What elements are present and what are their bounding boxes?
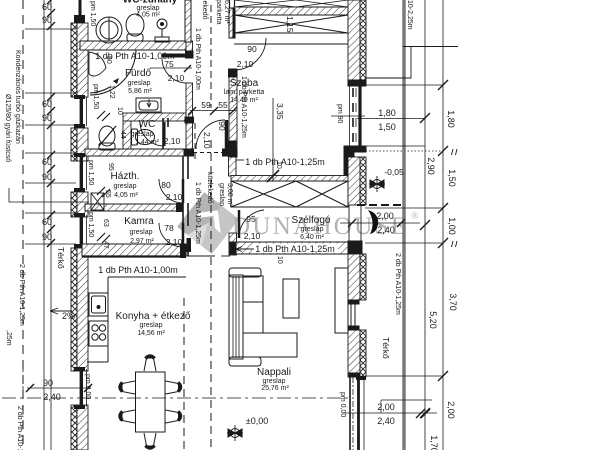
svg-text:2,00: 2,00 xyxy=(376,211,394,221)
svg-text:2,40: 2,40 xyxy=(43,392,61,402)
svg-text:pm 90: pm 90 xyxy=(336,104,343,124)
svg-text:greslap: greslap xyxy=(140,322,163,329)
left window extension lines xyxy=(25,29,76,244)
svg-text:25,76 m²: 25,76 m² xyxy=(261,385,289,392)
szoba right window extensions xyxy=(357,85,443,413)
svg-text:90: 90 xyxy=(42,172,52,182)
svg-text:greslap: greslap xyxy=(301,226,324,233)
svg-text:2%: 2% xyxy=(62,311,75,321)
svg-text:közlekedő: közlekedő xyxy=(201,0,208,20)
svg-text:1 db Pth A10-1,00m: 1 db Pth A10-1,00m xyxy=(98,265,178,275)
boiler leader line xyxy=(9,188,89,202)
kitchen counter edge xyxy=(87,277,186,362)
crossed-out toilet in niche xyxy=(99,126,116,150)
svg-text:6,27 m²: 6,27 m² xyxy=(223,0,230,24)
rotated dim labels right chains xyxy=(426,110,458,450)
svg-text:Házth.: Házth. xyxy=(111,171,140,182)
svg-text:50: 50 xyxy=(105,56,112,64)
Furdo/WC right wall xyxy=(184,41,194,156)
right chain B xyxy=(438,0,448,450)
svg-text:44: 44 xyxy=(119,131,126,139)
shower tray top room xyxy=(96,17,122,43)
svg-text:1 db Pth A10-1,25m: 1 db Pth A10-1,25m xyxy=(245,157,325,167)
svg-text:Térkő: Térkő xyxy=(381,337,391,359)
svg-text:10: 10 xyxy=(276,256,283,264)
washbasin furdo xyxy=(136,98,161,112)
svg-text:55: 55 xyxy=(218,100,228,110)
svg-text:60: 60 xyxy=(42,2,52,12)
svg-text:3,70: 3,70 xyxy=(448,293,458,311)
entry door leaf black xyxy=(368,210,378,234)
svg-text:1,70: 1,70 xyxy=(429,435,439,450)
svg-text:10: 10 xyxy=(116,107,123,115)
svg-text:Kamra: Kamra xyxy=(124,216,154,227)
szoba right window xyxy=(348,80,366,152)
boiler hazth xyxy=(91,193,104,210)
svg-text:pm 1,50: pm 1,50 xyxy=(87,160,94,185)
chairs left xyxy=(120,381,135,423)
toilet wc room xyxy=(132,129,155,145)
door kamra (78) xyxy=(159,223,183,247)
svg-text:2,90: 2,90 xyxy=(426,157,436,175)
szoba interior dim line xyxy=(267,98,279,182)
entry door threshold xyxy=(349,205,361,241)
coffee table xyxy=(283,279,299,318)
svg-text:6,40 m²: 6,40 m² xyxy=(300,234,324,241)
szelfogo right wall piece xyxy=(348,157,360,205)
svg-text:2,40: 2,40 xyxy=(377,416,395,426)
svg-text:greslap: greslap xyxy=(263,378,286,385)
nappali right big window glazing xyxy=(350,304,366,450)
svg-text:90: 90 xyxy=(247,44,257,54)
svg-text:95: 95 xyxy=(246,214,256,224)
svg-text:90: 90 xyxy=(42,113,52,123)
svg-text:2,10: 2,10 xyxy=(166,237,183,247)
sofa L-shape xyxy=(229,268,297,366)
svg-text:Nappali: Nappali xyxy=(257,367,291,378)
szoba left wall xyxy=(229,0,238,157)
svg-text:2,10: 2,10 xyxy=(237,59,254,69)
svg-text:60: 60 xyxy=(42,217,52,227)
svg-text:1,22: 1,22 xyxy=(108,85,115,99)
svg-text:közlekedő: közlekedő xyxy=(206,172,213,204)
terrace mid dim xyxy=(340,219,420,227)
terrace + bottom dim numbers xyxy=(246,108,404,426)
door szelfogo (95) xyxy=(239,210,264,238)
svg-text:5,20: 5,20 xyxy=(428,311,438,329)
terrace top step xyxy=(365,47,458,79)
svg-text:pm 0,00: pm 0,00 xyxy=(339,392,346,417)
left wall window caps xyxy=(74,15,85,409)
svg-text:pm 1,50: pm 1,50 xyxy=(87,212,94,237)
szoba bottom wall band xyxy=(226,116,365,175)
szoba right exterior wall upper xyxy=(348,0,360,80)
svg-text:2,40: 2,40 xyxy=(377,225,395,235)
svg-text:1,80: 1,80 xyxy=(378,108,396,118)
svg-text:1,44 m²: 1,44 m² xyxy=(135,139,159,146)
bottom-left window dim xyxy=(2,368,352,398)
left exterior wall xyxy=(71,23,88,450)
door corridor mid (90) xyxy=(188,120,228,157)
svg-text:2,10: 2,10 xyxy=(244,231,261,241)
Kamra bottom / kitchen top wall xyxy=(82,244,186,256)
Hazth/Kamra right wall xyxy=(183,156,188,256)
svg-text:55: 55 xyxy=(104,190,111,198)
left dim chain lines xyxy=(44,0,51,450)
corridor top dim xyxy=(188,107,237,115)
szelfogo top X window band xyxy=(231,176,348,208)
svg-text:90: 90 xyxy=(43,378,53,388)
svg-text:Ø125/80 gyári füstcső: Ø125/80 gyári füstcső xyxy=(4,94,11,162)
dining table xyxy=(136,372,166,432)
svg-text:59: 59 xyxy=(201,100,211,110)
svg-text:90: 90 xyxy=(42,232,52,242)
svg-text:,25m: ,25m xyxy=(5,330,12,346)
svg-text:Konyha + étkező: Konyha + étkező xyxy=(116,311,191,322)
svg-text:lam. parketta: lam. parketta xyxy=(215,0,222,25)
svg-text:Térkő: Térkő xyxy=(56,247,66,269)
svg-text:60: 60 xyxy=(42,99,52,109)
top-left room bottom wall (Furdo top) xyxy=(80,41,186,50)
dashed zone lines xyxy=(184,5,443,450)
corridor left wall upper xyxy=(185,0,191,42)
svg-text:Szélfogó: Szélfogó xyxy=(292,215,331,226)
door szoba (90) xyxy=(234,8,266,70)
svg-text:2,00: 2,00 xyxy=(377,402,395,412)
svg-text:4,05 m²: 4,05 m² xyxy=(136,12,160,19)
watermark xyxy=(177,192,419,254)
Hazth bottom / Kamra top wall xyxy=(85,204,183,211)
svg-text:pm 1,50: pm 1,50 xyxy=(92,84,99,109)
svg-text:±0,00: ±0,00 xyxy=(246,416,268,426)
svg-text:90: 90 xyxy=(217,121,227,131)
svg-text:1 db Pth A10-1,25m: 1 db Pth A10-1,25m xyxy=(240,76,247,138)
door furdo (75) xyxy=(150,56,192,84)
svg-text:1 db Pth A10-1,25m: 1 db Pth A10-1,25m xyxy=(194,182,201,244)
svg-text:5,86 m²: 5,86 m² xyxy=(128,88,152,95)
svg-text:WC: WC xyxy=(139,119,156,130)
svg-text:2 db Pth A10-1,25m: 2 db Pth A10-1,25m xyxy=(18,264,25,326)
tv cabinet xyxy=(335,268,348,333)
svg-text:2 db Pth A10-1: 2 db Pth A10-1 xyxy=(16,406,23,450)
svg-text:greslap: greslap xyxy=(218,183,225,206)
svg-text:80: 80 xyxy=(161,180,171,190)
room labels xyxy=(111,0,331,392)
kitchen sink xyxy=(89,293,108,316)
nappali right exterior wall xyxy=(348,254,366,377)
svg-text:2,10: 2,10 xyxy=(202,132,212,149)
svg-text:47: 47 xyxy=(102,241,109,249)
left chain ticks xyxy=(47,0,55,247)
door wc (55) xyxy=(140,122,164,146)
svg-text:greslap: greslap xyxy=(131,131,154,138)
svg-text:Fürdő: Fürdő xyxy=(125,68,152,79)
left chain dim numbers xyxy=(42,2,61,402)
kitchen stove xyxy=(89,321,108,346)
watermark house logo xyxy=(177,192,239,254)
chairs right xyxy=(166,381,181,423)
svg-text:-0,05: -0,05 xyxy=(384,167,404,177)
toilet top room xyxy=(126,14,144,41)
svg-text:1,50: 1,50 xyxy=(378,122,396,132)
svg-text:greslap: greslap xyxy=(114,183,137,190)
right ditto marks xyxy=(452,149,458,247)
chair bottom xyxy=(144,433,156,448)
svg-text:1 db Pth A10-1,25m: 1 db Pth A10-1,25m xyxy=(255,244,335,254)
svg-text:pm 1,50: pm 1,50 xyxy=(89,1,96,26)
svg-text:pm 0,00: pm 0,00 xyxy=(84,374,91,399)
bottom right dims xyxy=(345,400,437,418)
szelfogo left (corridor right) wall xyxy=(229,157,237,255)
svg-text:®: ® xyxy=(411,211,419,222)
svg-text:10: 10 xyxy=(275,161,282,169)
svg-text:greslap: greslap xyxy=(130,229,153,236)
svg-text:1,80: 1,80 xyxy=(446,110,456,128)
svg-text:greslap: greslap xyxy=(128,80,151,87)
svg-text:60: 60 xyxy=(42,157,52,167)
svg-text:14,56 m²: 14,56 m² xyxy=(137,330,165,337)
WC bottom / Hazth top wall xyxy=(85,149,188,156)
svg-text:2,00: 2,00 xyxy=(446,401,456,419)
szoba top terrace X-band xyxy=(234,0,348,44)
left boundary dashed line xyxy=(22,0,24,450)
shower column top room xyxy=(155,19,169,42)
svg-text:4,05 m²: 4,05 m² xyxy=(114,192,138,199)
lintel labels xyxy=(95,51,338,275)
nappali top wall band xyxy=(230,241,362,254)
svg-text:95: 95 xyxy=(107,163,114,171)
right chain A xyxy=(420,0,430,450)
terrace gray line xyxy=(402,0,406,450)
svg-text:3,08 m²: 3,08 m² xyxy=(226,183,233,207)
level marker nappali xyxy=(227,425,243,441)
svg-text:78: 78 xyxy=(164,223,174,233)
svg-text:63: 63 xyxy=(102,219,109,227)
WC top wall xyxy=(123,113,186,149)
svg-text:1,15: 1,15 xyxy=(285,16,295,33)
svg-text:75: 75 xyxy=(164,59,174,69)
svg-text:1,00: 1,00 xyxy=(447,217,457,235)
door hazth (80) xyxy=(159,179,183,203)
svg-text:3,35: 3,35 xyxy=(275,103,285,120)
2 percent slope arrow xyxy=(50,308,75,321)
rotated annotation texts xyxy=(4,0,413,450)
svg-text:2,10: 2,10 xyxy=(166,192,183,202)
svg-text:1 db Pth A10-1,00m: 1 db Pth A10-1,00m xyxy=(194,28,201,90)
svg-text:2,10: 2,10 xyxy=(168,73,185,83)
level marker terrace xyxy=(369,176,385,192)
door dimension labels xyxy=(161,44,260,247)
svg-text:2,10: 2,10 xyxy=(164,136,181,146)
svg-text:10-2,25m: 10-2,25m xyxy=(406,0,413,30)
svg-text:90: 90 xyxy=(42,15,52,25)
svg-text:2 db Pth A10-1,25m: 2 db Pth A10-1,25m xyxy=(394,253,401,315)
bathtub xyxy=(89,50,136,95)
svg-text:2,97 m²: 2,97 m² xyxy=(130,238,154,245)
left wall window glazing xyxy=(80,0,87,407)
svg-text:Kondenzációs turbó gázkazán: Kondenzációs turbó gázkazán xyxy=(14,50,21,144)
lintel leader arrow nappali xyxy=(236,247,254,252)
chair top xyxy=(144,356,156,371)
WC right wall xyxy=(163,118,168,149)
svg-text:1,50: 1,50 xyxy=(447,169,457,187)
